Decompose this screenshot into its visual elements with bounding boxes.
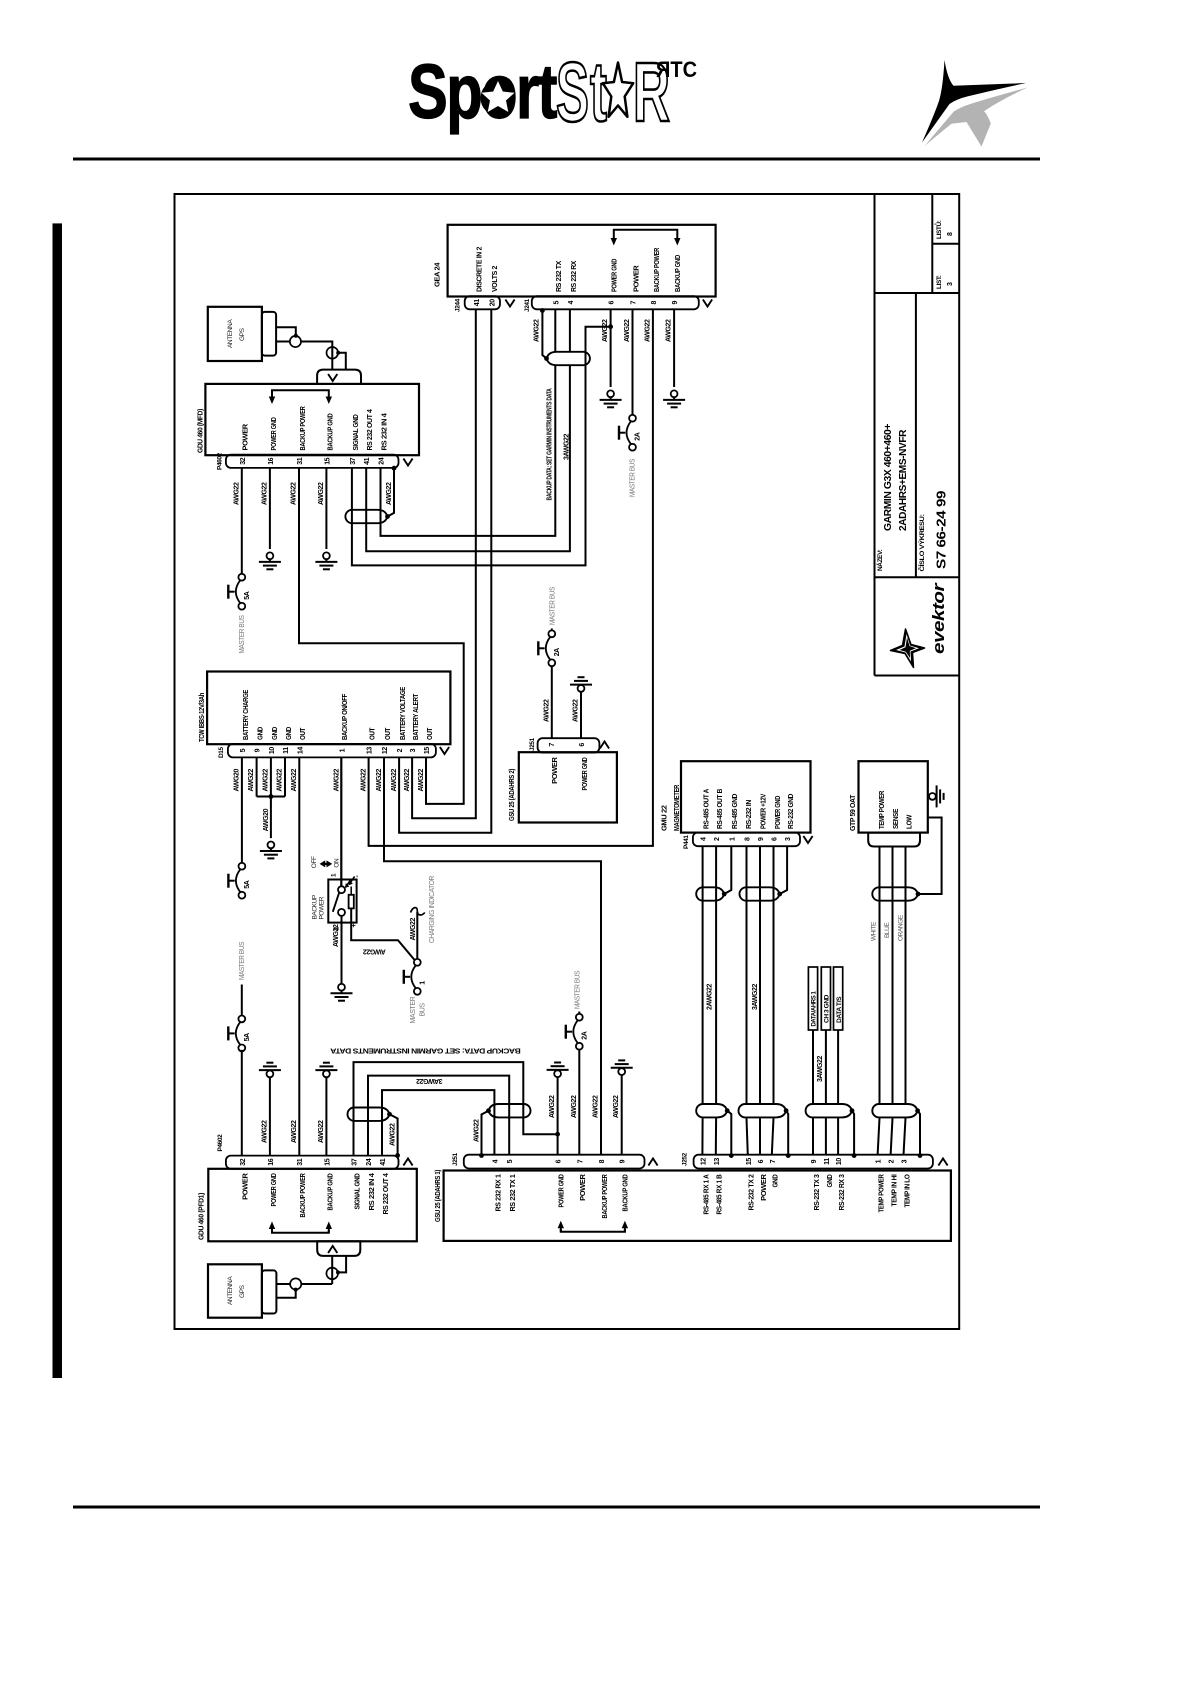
- svg-text:RS 232 RX: RS 232 RX: [569, 261, 578, 292]
- svg-text:3: 3: [947, 282, 954, 286]
- connector chevron J244: [505, 300, 514, 307]
- svg-text:GND: GND: [256, 726, 265, 740]
- shield drain to ADAHRS1 backshell: [482, 1111, 489, 1156]
- svg-text:POWER: POWER: [318, 896, 325, 919]
- svg-text:24: 24: [379, 457, 386, 464]
- svg-text:12: 12: [382, 747, 389, 754]
- wires GMU pins 4/2 RS-485 pair down: [702, 846, 704, 1103]
- charging indicator squiggle: [411, 908, 425, 915]
- svg-text:32: 32: [240, 457, 247, 464]
- svg-text:AWG22: AWG22: [291, 482, 298, 505]
- svg-text:P441: P441: [683, 835, 690, 849]
- svg-text:41: 41: [474, 299, 481, 306]
- svg-text:GARMIN G3X 460+460+: GARMIN G3X 460+460+: [883, 423, 894, 531]
- svg-text:AWG22: AWG22: [549, 1095, 556, 1118]
- stub wire PFD1 breaker: [241, 985, 243, 1016]
- svg-text:CHARGING INDICATOR: CHARGING INDICATOR: [429, 876, 436, 943]
- svg-text:9: 9: [255, 748, 262, 752]
- svg-text:13: 13: [714, 1158, 721, 1165]
- svg-text:GND: GND: [270, 726, 279, 740]
- svg-text:RS-485 OUT A: RS-485 OUT A: [702, 788, 711, 829]
- svg-text:16: 16: [268, 1158, 275, 1165]
- coax wire to antenna connector circle: [301, 1283, 332, 1285]
- circuit breaker 2A (ADAHRS2): [548, 630, 555, 637]
- circuit breaker 5A (MFD power): [238, 574, 245, 581]
- svg-text:AWG22: AWG22: [613, 1095, 620, 1118]
- wire GEA pin9 BACKUP GND to ground: [673, 309, 675, 387]
- GDU PFD1 antenna connector bump: [317, 1241, 360, 1256]
- svg-text:GND: GND: [771, 1174, 780, 1188]
- wire PFD1 pin24 loop to ADAHRS1 pin5: [368, 1076, 509, 1156]
- wire breaker to ADAHRS1 pin7: [578, 1049, 580, 1155]
- svg-text:2ADAHRS+EMS-NVFR: 2ADAHRS+EMS-NVFR: [898, 429, 909, 531]
- svg-text:RS-232 TX 3: RS-232 TX 3: [812, 1174, 821, 1210]
- svg-text:BACKUP POWER: BACKUP POWER: [652, 247, 661, 292]
- svg-text:MASTER BUS: MASTER BUS: [239, 941, 246, 980]
- charging indicator LED: [346, 879, 351, 887]
- wire TCW pin1 to backup power switch: [340, 757, 342, 886]
- svg-text:2: 2: [397, 748, 404, 752]
- svg-text:J251: J251: [529, 737, 536, 751]
- svg-text:AWG22: AWG22: [534, 319, 541, 342]
- svg-text:2: 2: [889, 1159, 896, 1163]
- wire GEA pin8 BACKUP POWER to TCW pin13: [369, 309, 653, 846]
- svg-text:AWG22: AWG22: [233, 482, 240, 505]
- svg-text:BACKUP ON/OFF: BACKUP ON/OFF: [340, 693, 349, 740]
- wires GMU pins 8/9/6 trio down: [746, 846, 748, 1103]
- svg-text:OUT: OUT: [298, 727, 307, 740]
- ground symbol (GEA power gnd): [607, 390, 614, 397]
- svg-text:AWG22: AWG22: [291, 1120, 298, 1143]
- GDU 460 (PFD1) box: [208, 1169, 416, 1242]
- svg-text:RS-485 RX 1 B: RS-485 RX 1 B: [715, 1174, 724, 1215]
- shield drain to J252 backshell: [852, 1111, 854, 1156]
- shield drain GMU trio: [786, 1111, 788, 1156]
- svg-text:MASTER BUS: MASTER BUS: [549, 586, 556, 625]
- svg-text:RS-232 TX 2: RS-232 TX 2: [747, 1174, 756, 1210]
- svg-text:5: 5: [507, 1159, 514, 1163]
- SportStar RTC logo: [408, 45, 697, 139]
- svg-text:5A: 5A: [244, 591, 251, 599]
- svg-text:AWG22: AWG22: [376, 768, 383, 791]
- svg-text:GSU 25 (ADAHRS 2): GSU 25 (ADAHRS 2): [507, 768, 516, 821]
- svg-text:AWG22: AWG22: [361, 768, 368, 791]
- GPS antenna (bottom) box: [208, 1264, 262, 1317]
- backshell junction dot: [392, 466, 397, 471]
- svg-text:AWG22: AWG22: [261, 482, 268, 505]
- svg-text:1: 1: [339, 748, 346, 752]
- svg-text:OUT: OUT: [383, 727, 392, 740]
- svg-text:MASTER BUS: MASTER BUS: [239, 615, 246, 654]
- svg-text:3AWG22: 3AWG22: [752, 983, 759, 1010]
- svg-text:CH 3 GND: CH 3 GND: [825, 994, 831, 1023]
- connector chevron P441: [803, 836, 812, 843]
- svg-text:evektor: evektor: [929, 582, 948, 654]
- svg-text:1: 1: [331, 873, 338, 877]
- wire GEA pin4 RS232 RX upper segment: [569, 309, 571, 352]
- wire TCW pin14 OUT down to GDU PFD1 pin31: [298, 757, 300, 1155]
- inline coax connector circle 2: [327, 347, 339, 359]
- svg-text:DATA T/S: DATA T/S: [837, 997, 843, 1023]
- svg-text:GND: GND: [284, 726, 293, 740]
- svg-text:3AWG22: 3AWG22: [416, 1077, 443, 1084]
- svg-text:9: 9: [758, 837, 765, 841]
- connector J251 strip (ADAHRS2): [538, 738, 600, 752]
- CH 3 GND terminal box: [821, 967, 830, 1030]
- PFD1 internal ground-link arrows: [272, 1230, 329, 1233]
- svg-text:S7 66-24 99: S7 66-24 99: [934, 491, 949, 569]
- shield drain to PFD1 backshell: [390, 1114, 398, 1155]
- wires trio segments capsule to J252: [747, 1118, 748, 1155]
- svg-text:AWG22: AWG22: [277, 768, 284, 791]
- svg-text:1: 1: [419, 981, 426, 985]
- svg-text:6: 6: [579, 743, 586, 747]
- GTP probe plug: [868, 833, 920, 847]
- connector P4602 strip (GDU MFD): [226, 455, 399, 468]
- stub wire ADAHRS1 breaker: [578, 1012, 580, 1014]
- svg-text:RS-232 RX 3: RS-232 RX 3: [837, 1174, 846, 1210]
- svg-text:BACKUP DATA: SET GARMIN INSTRU: BACKUP DATA: SET GARMIN INSTRUMENTS DATA: [330, 1046, 521, 1055]
- svg-text:37: 37: [352, 1158, 359, 1165]
- svg-text:POWER GND: POWER GND: [269, 417, 278, 451]
- svg-text:GPS: GPS: [239, 327, 246, 341]
- svg-text:RS-232 IN: RS-232 IN: [744, 800, 753, 829]
- svg-text:WHITE: WHITE: [871, 921, 878, 941]
- svg-text:4: 4: [492, 1159, 499, 1163]
- svg-text:OUT: OUT: [368, 727, 377, 740]
- svg-text:ON: ON: [334, 858, 341, 868]
- GTP wires white/blue/orange: [879, 847, 881, 1104]
- connector J241 strip (GEA): [532, 296, 699, 309]
- GPS antenna (top) box: [208, 307, 262, 361]
- GSU 25 (ADAHRS 2) box: [519, 752, 617, 822]
- wire TCW pin5 BATTERY CHARGE to 5A breaker: [241, 757, 243, 862]
- svg-text:RS 232 IN 4: RS 232 IN 4: [367, 1172, 376, 1210]
- wires TCW pins 9/10/11 GND bracket: [256, 757, 258, 796]
- svg-text:8: 8: [651, 300, 658, 304]
- connector P4602 strip (PFD1): [226, 1156, 399, 1169]
- svg-text:3: 3: [902, 1159, 909, 1163]
- svg-text:AWG22: AWG22: [573, 699, 580, 722]
- svg-text:GEA 24: GEA 24: [433, 262, 442, 287]
- GEA 24 box: [448, 225, 716, 297]
- wire MFD pin24 RS232 IN4 to GEA pin5: [381, 366, 556, 536]
- svg-text:AWG22: AWG22: [404, 768, 411, 791]
- svg-text:P4602: P4602: [217, 1134, 224, 1152]
- wire ground to ADAHRS1 pin9: [621, 1075, 623, 1155]
- svg-text:AWG22: AWG22: [261, 1120, 268, 1143]
- svg-text:AWG22: AWG22: [571, 1095, 578, 1118]
- svg-text:AWG22: AWG22: [593, 1095, 600, 1118]
- svg-text:AWG22: AWG22: [391, 768, 398, 791]
- circuit breaker 2A (GEA): [629, 415, 636, 422]
- svg-text:7: 7: [770, 1159, 777, 1163]
- svg-text:-: -: [354, 875, 361, 878]
- svg-text:POWER: POWER: [631, 265, 640, 292]
- GSU 25 (ADAHRS 1) box: [444, 1171, 951, 1241]
- svg-text:ČÍSLO VÝKRESU:: ČÍSLO VÝKRESU:: [917, 514, 926, 571]
- shield drain wire from J241 backshell: [542, 311, 546, 359]
- inverted ground (ADAHRS1 power gnd): [554, 1062, 561, 1064]
- svg-text:RS-485 GND: RS-485 GND: [730, 793, 739, 829]
- svg-text:RS 232 OUT 4: RS 232 OUT 4: [381, 1172, 390, 1214]
- wire MFD pin15 BACKUP GND to ground: [325, 468, 327, 549]
- svg-text:POWER GND: POWER GND: [610, 258, 619, 292]
- svg-text:7: 7: [549, 743, 556, 747]
- shield capsule (GMU trio): [740, 887, 780, 900]
- svg-text:AWG22: AWG22: [248, 768, 255, 791]
- svg-text:MAGNETOMETER: MAGNETOMETER: [672, 784, 681, 831]
- svg-text:LISTŮ:: LISTŮ:: [933, 220, 943, 239]
- ground symbol (switch): [338, 984, 345, 991]
- shield pigtail GMU pin3: [780, 846, 787, 894]
- antenna plug: [262, 312, 276, 356]
- J251 ADAHRS1 backshell dot: [479, 1153, 484, 1158]
- wire GEA pin5 RS232 TX upper segment: [554, 309, 556, 352]
- svg-text:POWER: POWER: [578, 1174, 587, 1201]
- svg-text:AWG22: AWG22: [666, 319, 673, 342]
- svg-text:6: 6: [758, 1159, 765, 1163]
- wire squiggle to breaker: [416, 912, 418, 959]
- svg-text:D15: D15: [218, 746, 225, 758]
- svg-text:3: 3: [785, 837, 792, 841]
- svg-text:SIGNAL GND: SIGNAL GND: [352, 1173, 361, 1210]
- inline coax connector circle (antenna side): [290, 1278, 301, 1289]
- circuit breaker 2A (ADAHRS1): [576, 1014, 583, 1021]
- shield capsule (GTP): [872, 887, 918, 900]
- svg-text:ANTENNA: ANTENNA: [227, 319, 234, 348]
- svg-text:TCW IBBS-12V/3Ah: TCW IBBS-12V/3Ah: [197, 692, 206, 742]
- svg-text:LOW: LOW: [905, 814, 914, 829]
- svg-text:OUT: OUT: [425, 727, 434, 740]
- connector P441 strip (GMU): [693, 832, 800, 846]
- svg-text:POWER GND: POWER GND: [269, 1173, 278, 1207]
- wire GEA J244 pin41 DISCRETE to TCW pin3: [412, 309, 476, 818]
- circuit breaker 1A (charging indicator): [414, 959, 421, 966]
- svg-text:2A: 2A: [554, 648, 561, 656]
- inline coax connector circle (PFD1 side): [326, 1268, 338, 1280]
- svg-text:10: 10: [836, 1158, 843, 1165]
- shield capsule (MFD RS232 bundle): [345, 510, 387, 523]
- svg-text:AWG22: AWG22: [334, 768, 341, 791]
- inverted ground (ADAHRS2 power gnd): [578, 676, 585, 678]
- svg-text:AWG20: AWG20: [263, 808, 270, 831]
- svg-text:37: 37: [350, 457, 357, 464]
- svg-text:BACKUP GND: BACKUP GND: [325, 1173, 334, 1211]
- svg-text:BACKUP: BACKUP: [311, 895, 318, 919]
- svg-text:LIST:: LIST:: [936, 275, 943, 289]
- wire ground to PFD1 pin15: [325, 1077, 327, 1155]
- svg-text:AWG22: AWG22: [363, 947, 386, 954]
- svg-text:2A: 2A: [581, 1031, 588, 1039]
- svg-text:9: 9: [811, 1159, 818, 1163]
- svg-text:GSU 25 (ADAHRS 1): GSU 25 (ADAHRS 1): [433, 1169, 442, 1222]
- svg-text:MASTER: MASTER: [410, 996, 417, 1023]
- wire MFD pin31 BACKUP POWER to TCW pin15: [299, 468, 464, 804]
- svg-text:NÁZEV:: NÁZEV:: [875, 549, 884, 571]
- svg-text:5A: 5A: [244, 1033, 251, 1041]
- LED series resistor: [349, 895, 354, 909]
- footer rule: [73, 1506, 1040, 1509]
- wires DATA boxes to J252 trio: [812, 1030, 814, 1103]
- svg-text:3AWG22: 3AWG22: [817, 1055, 824, 1082]
- svg-text:TEMP IN LO: TEMP IN LO: [902, 1174, 911, 1207]
- svg-text:AWG20: AWG20: [234, 768, 241, 791]
- wire MFD pin16 POWER GND to ground: [269, 468, 271, 549]
- ground symbol (MFD power gnd): [267, 552, 274, 559]
- svg-text:6: 6: [772, 837, 779, 841]
- svg-text:16: 16: [268, 457, 275, 464]
- shield capsule (DATA trio): [806, 1104, 852, 1117]
- shield capsule (GMU trio bottom): [739, 1104, 787, 1117]
- svg-text:POWER GND: POWER GND: [580, 757, 589, 791]
- svg-text:POWER GND: POWER GND: [773, 795, 782, 829]
- GMU 22 MAGNETOMETER box: [681, 761, 811, 832]
- svg-text:AWG22: AWG22: [318, 482, 325, 505]
- svg-text:15: 15: [424, 747, 431, 754]
- svg-text:POWER +12V: POWER +12V: [759, 794, 768, 829]
- svg-text:RS 232 TX 1: RS 232 TX 1: [508, 1174, 517, 1211]
- Evektor star emblem top right: [922, 60, 1028, 147]
- connector chevron J241: [703, 300, 712, 307]
- connector J244 strip (GEA): [465, 296, 500, 309]
- svg-text:AWG22: AWG22: [410, 917, 417, 940]
- svg-text:t: t: [590, 45, 607, 139]
- left revision bar: [53, 223, 63, 1378]
- svg-text:BUS: BUS: [419, 1003, 426, 1017]
- shield capsule (RS485 pair bottom): [696, 1104, 727, 1117]
- TCW IBBS-12V/3Ah battery box: [207, 672, 450, 745]
- svg-text:AWG22: AWG22: [644, 319, 651, 342]
- ADAHRS1 internal ground-link arrows: [561, 1229, 625, 1232]
- svg-text:ANTENNA: ANTENNA: [227, 1276, 234, 1305]
- wire GEA pin6 POWER GND to ground with junction: [610, 309, 612, 387]
- GDU MFD antenna connector bump: [317, 370, 361, 384]
- shield capsule (GTP bottom): [872, 1104, 917, 1117]
- svg-text:11: 11: [824, 1158, 831, 1165]
- svg-text:BACKUP GND: BACKUP GND: [673, 254, 682, 292]
- svg-text:BLUE: BLUE: [884, 922, 891, 938]
- svg-text:7: 7: [631, 300, 638, 304]
- svg-text:RS-232 GND: RS-232 GND: [786, 793, 795, 829]
- svg-text:AWG22: AWG22: [624, 319, 631, 342]
- svg-text:J252: J252: [681, 1152, 688, 1166]
- connector chevron P4602 PFD1: [403, 1159, 412, 1166]
- svg-text:6: 6: [609, 300, 616, 304]
- circuit breaker 5A (PFD1): [238, 1016, 245, 1023]
- switch contacts and lever: [338, 886, 345, 893]
- svg-text:AWG22: AWG22: [602, 319, 609, 342]
- svg-text:3: 3: [410, 748, 417, 752]
- svg-text:11: 11: [283, 747, 290, 754]
- svg-text:SIGNAL GND: SIGNAL GND: [351, 414, 360, 451]
- connector chevron J252: [938, 1159, 947, 1166]
- coax wire antenna to inline connector: [276, 327, 296, 334]
- svg-text:OFF: OFF: [311, 856, 318, 868]
- svg-text:AWG22: AWG22: [386, 482, 393, 505]
- svg-text:GPS: GPS: [239, 1284, 246, 1298]
- svg-text:24: 24: [366, 1158, 373, 1165]
- connector D15 strip (TCW): [228, 744, 436, 758]
- antenna plug (bottom): [262, 1270, 277, 1313]
- svg-text:10: 10: [269, 747, 276, 754]
- svg-text:GDU 460 (PFD1): GDU 460 (PFD1): [197, 1192, 206, 1240]
- svg-text:S: S: [556, 45, 589, 139]
- coax wires to bottom antenna plug: [276, 1283, 290, 1285]
- wire ground to ADAHRS1 pin6: [557, 1077, 559, 1155]
- svg-text:BACKUP GND: BACKUP GND: [621, 1174, 630, 1212]
- wire TCW pin12 OUT to GSU ADAHRS1 pin8: [384, 757, 601, 1155]
- svg-text:13: 13: [367, 747, 374, 754]
- svg-text:6: 6: [556, 1159, 563, 1163]
- wire MFD pin41 RS232 OUT4 to GEA pin4: [366, 366, 570, 551]
- shield capsule (PFD1 RS232 bundle): [348, 1108, 390, 1121]
- coax wire connector1 to connector2: [301, 342, 332, 370]
- svg-text:4: 4: [568, 300, 575, 304]
- svg-text:15: 15: [324, 457, 331, 464]
- GDU 460 (MFD) box: [205, 384, 419, 455]
- svg-text:POWER GND: POWER GND: [557, 1174, 566, 1208]
- wire LED resistor to charging indicator breaker: [351, 908, 414, 960]
- svg-text:BACKUP DATA: SET GARMIN INSTRU: BACKUP DATA: SET GARMIN INSTRUMENTS DATA: [546, 388, 553, 500]
- connector chevron J251 ADAHRS2: [600, 742, 609, 749]
- svg-text:9: 9: [672, 300, 679, 304]
- svg-text:POWER: POWER: [241, 423, 250, 450]
- svg-text:RS-485 RX 1 A: RS-485 RX 1 A: [701, 1174, 710, 1215]
- svg-text:RS-485 OUT B: RS-485 OUT B: [715, 788, 724, 829]
- wire GEA J244 pin20 VOLTS2 to TCW pin2: [399, 309, 491, 832]
- connector J251 strip (ADAHRS1): [464, 1155, 645, 1169]
- connector chevron J251 ADAHRS1: [648, 1159, 657, 1166]
- header rule: [73, 158, 1040, 161]
- svg-text:AWG22: AWG22: [318, 1120, 325, 1143]
- wire ground to ADAHRS2 pin6: [580, 692, 582, 739]
- svg-text:5: 5: [240, 748, 247, 752]
- svg-text:POWER: POWER: [550, 757, 559, 784]
- svg-text:12: 12: [700, 1158, 707, 1165]
- GEA internal ground-link arrows: [614, 230, 678, 238]
- svg-text:AWG22: AWG22: [543, 699, 550, 722]
- GTP case ground (sideways): [928, 795, 929, 797]
- svg-text:41: 41: [364, 457, 371, 464]
- svg-text:GND: GND: [825, 1174, 834, 1188]
- svg-text:J244: J244: [454, 298, 461, 312]
- svg-text:BACKUP POWER: BACKUP POWER: [298, 406, 307, 451]
- svg-text:ЯTC: ЯTC: [656, 57, 697, 82]
- svg-text:TEMP POWER: TEMP POWER: [877, 790, 886, 829]
- svg-text:7: 7: [577, 1159, 584, 1163]
- svg-text:4: 4: [701, 837, 708, 841]
- svg-text:5A: 5A: [244, 880, 251, 888]
- svg-text:20: 20: [489, 299, 496, 306]
- svg-text:TEMP IN HI: TEMP IN HI: [890, 1174, 899, 1206]
- shield drain wire from MFD backshell: [388, 468, 395, 516]
- coax shield wire to GDU MFD connector: [338, 353, 346, 370]
- title block outline: [874, 194, 876, 676]
- svg-text:GDU 460 (MFD): GDU 460 (MFD): [196, 408, 205, 453]
- wire breaker to ADAHRS2 pin7: [551, 666, 553, 738]
- svg-text:32: 32: [240, 1158, 247, 1165]
- svg-text:AWG22: AWG22: [333, 924, 340, 947]
- wire switch pin2 to ground: [341, 916, 343, 984]
- svg-text:1: 1: [876, 1159, 883, 1163]
- ground symbol (GEA backup gnd): [671, 390, 678, 397]
- svg-text:BACKUP POWER: BACKUP POWER: [298, 1173, 307, 1218]
- svg-text:31: 31: [297, 1158, 304, 1165]
- GTP 59 OAT probe box: [859, 761, 928, 832]
- inverted ground (PFD1 backup gnd): [323, 1062, 330, 1064]
- svg-text:BATTERY ALERT: BATTERY ALERT: [411, 693, 420, 740]
